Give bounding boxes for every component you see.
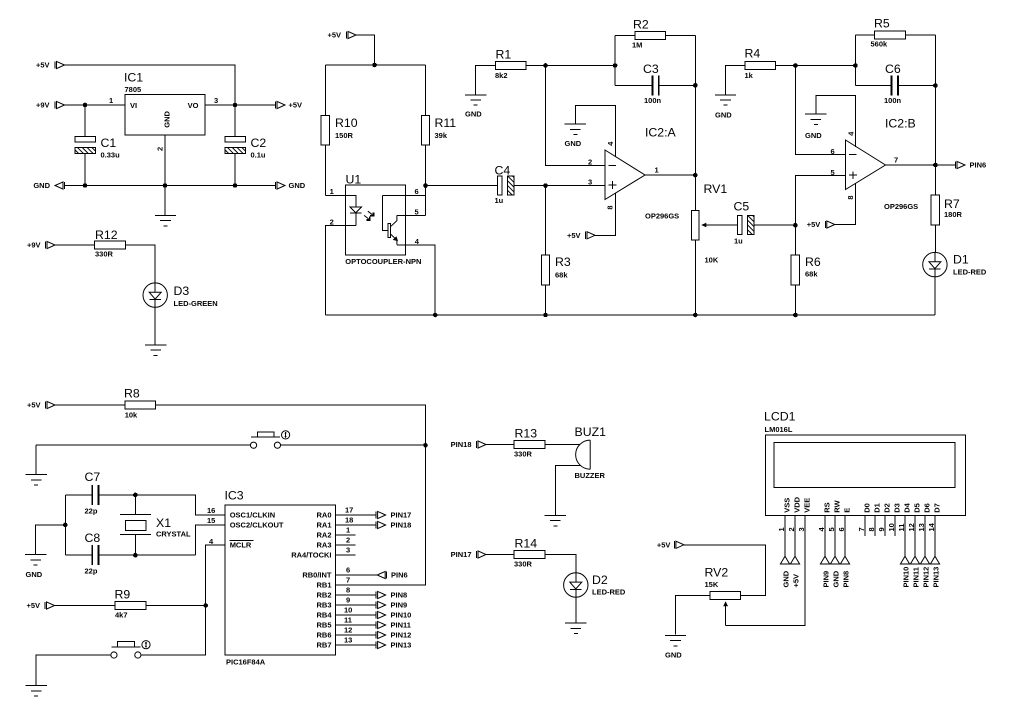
wire C4 node to pin3 [426, 185, 498, 187]
wire +5V to RV2 right [684, 545, 766, 596]
wire RB7 stub [336, 644, 376, 646]
svg-text:RB3: RB3 [316, 601, 331, 610]
capacitor C2 0.1u [225, 136, 267, 160]
svg-text:OP296GS: OP296GS [884, 202, 918, 211]
svg-text:E: E [843, 508, 852, 513]
wire U1 pin5 [397, 214, 426, 216]
wire crystal bus to ground [36, 525, 66, 555]
svg-text:LED-RED: LED-RED [592, 587, 626, 596]
wire R3 to bottom rail [545, 285, 547, 315]
svg-text:IC2:B: IC2:B [885, 117, 916, 131]
terminal PIN17 [376, 511, 411, 520]
svg-text:VI: VI [130, 101, 137, 110]
wire PIN17 to R14 [486, 554, 514, 556]
svg-text:OPTOCOUPLER-NPN: OPTOCOUPLER-NPN [345, 257, 421, 266]
svg-text:D5: D5 [913, 503, 922, 513]
svg-text:PIC16F84A: PIC16F84A [226, 657, 266, 666]
capacitor C4 1u [495, 164, 515, 206]
wire D3 to ground [154, 307, 156, 345]
svg-text:R7: R7 [944, 197, 960, 211]
wire node to feedback [546, 65, 616, 67]
resistor R12 330R [95, 228, 126, 259]
svg-text:GND: GND [33, 181, 50, 190]
svg-text:100n: 100n [884, 96, 902, 105]
svg-text:GND: GND [289, 181, 306, 190]
svg-text:10k: 10k [125, 411, 138, 420]
terminal PIN18 (buzzer) [451, 440, 486, 449]
ground (crystal) [25, 555, 46, 565]
svg-text:R4: R4 [745, 47, 761, 61]
capacitor C6 100n [855, 62, 935, 105]
svg-text:BUZZER: BUZZER [575, 471, 606, 480]
svg-text:D0: D0 [863, 503, 872, 513]
svg-text:+5V: +5V [567, 231, 581, 240]
svg-text:VO: VO [188, 101, 199, 110]
svg-text:PIN10: PIN10 [391, 611, 412, 620]
svg-text:8: 8 [846, 195, 855, 199]
wire +5V to R8 [55, 404, 125, 406]
wire LCD pin9 stub [884, 515, 886, 536]
terminal PIN13 (LCD D7) [930, 556, 940, 587]
wire +9V to R12 [55, 244, 94, 246]
wire non-inverting input net (IC2:B) [795, 175, 845, 255]
wire bottom rail [325, 314, 935, 316]
wire U1 pin6 [383, 194, 426, 196]
resistor R8 10k [124, 387, 156, 420]
resistor R5 560k [855, 17, 935, 49]
node feedback left dot [613, 63, 618, 68]
svg-text:PIN9: PIN9 [822, 571, 831, 588]
wire IC1 pin2 down [164, 135, 166, 216]
svg-text:GND: GND [26, 570, 43, 579]
wire LCD pin10 stub [894, 515, 896, 536]
LED D1 LED-RED [923, 252, 987, 276]
wire RA0 stub [336, 514, 376, 516]
wire RB5 stub [336, 624, 376, 626]
wire R12 to D3 [125, 245, 155, 283]
svg-text:+5V: +5V [26, 601, 40, 610]
svg-text:GND: GND [805, 131, 822, 140]
svg-text:VEE: VEE [803, 498, 812, 513]
svg-text:150R: 150R [335, 131, 354, 140]
ground (IC2:B) [805, 114, 826, 124]
svg-text:2: 2 [346, 536, 350, 545]
wire U1 pin2 to bottom rail [325, 226, 356, 316]
ground (D2) [565, 623, 586, 633]
wire node to R3 [545, 186, 547, 256]
wire D1 to bottom rail [934, 277, 936, 315]
svg-text:0.33u: 0.33u [101, 151, 121, 160]
wire RB6 stub [336, 634, 376, 636]
svg-text:560k: 560k [871, 40, 889, 49]
wire +5V down to top rail [356, 35, 375, 65]
terminal GND (left) [33, 181, 64, 190]
svg-text:LED-RED: LED-RED [953, 267, 987, 276]
wire LCD pin4 stub [824, 515, 826, 556]
svg-text:C4: C4 [495, 164, 511, 178]
svg-text:C2: C2 [251, 136, 267, 150]
svg-text:330R: 330R [95, 250, 114, 259]
wire +9V to IC1 VI [65, 104, 126, 106]
svg-text:LCD1: LCD1 [764, 410, 796, 424]
wire button1 left [36, 444, 253, 446]
svg-text:22p: 22p [85, 507, 98, 516]
node R6-rail dot [793, 313, 798, 318]
LCD1 LM016L display [764, 410, 966, 516]
svg-text:C7: C7 [85, 470, 101, 484]
svg-text:6: 6 [346, 566, 350, 575]
svg-text:C1: C1 [101, 136, 117, 150]
svg-text:LED-GREEN: LED-GREEN [174, 299, 218, 308]
svg-text:1: 1 [346, 526, 350, 535]
wire pins 5-6 vertical to node [425, 186, 427, 216]
svg-text:RB1: RB1 [316, 581, 331, 590]
wire C5 to pin5 riser [754, 224, 795, 226]
svg-text:R13: R13 [515, 427, 538, 441]
svg-text:OP296GS: OP296GS [645, 212, 679, 221]
svg-text:5: 5 [827, 527, 836, 531]
U1 internal LED [350, 207, 362, 226]
resistor R2 1M [615, 18, 695, 50]
ground (button1) [26, 475, 47, 485]
node MCLR dot [203, 603, 208, 608]
crystal X1 [120, 495, 191, 555]
svg-text:PIN9: PIN9 [391, 601, 408, 610]
svg-text:+9V: +9V [27, 241, 41, 250]
terminal GND (LCD RW) [830, 556, 840, 587]
svg-text:IC2:A: IC2:A [645, 126, 677, 140]
svg-text:GND: GND [465, 110, 482, 119]
svg-text:1: 1 [655, 166, 659, 175]
svg-text:RB7: RB7 [316, 641, 331, 650]
svg-text:+5V: +5V [289, 101, 303, 110]
svg-text:C6: C6 [885, 62, 901, 76]
svg-text:12: 12 [907, 523, 916, 531]
wire RV2 left to ground [675, 595, 710, 634]
wire R5 right riser to R7 [934, 35, 936, 195]
svg-text:7: 7 [894, 156, 898, 165]
svg-text:330R: 330R [514, 560, 533, 569]
svg-text:330R: 330R [514, 450, 533, 459]
svg-text:1M: 1M [632, 41, 642, 50]
svg-text:3: 3 [797, 527, 806, 531]
svg-text:PIN13: PIN13 [391, 641, 412, 650]
wire RA1 stub [336, 524, 376, 526]
svg-text:39k: 39k [435, 131, 448, 140]
wire R6 to bottom rail [794, 285, 796, 315]
wire RA3 stub [336, 544, 356, 546]
svg-text:+5V: +5V [792, 574, 801, 588]
wire LCD pin7 stub [864, 515, 866, 536]
svg-text:3: 3 [346, 546, 350, 555]
node R11/C4/pins junction dot [423, 183, 428, 188]
wire crystal left bus [64, 495, 66, 555]
svg-text:6: 6 [831, 147, 835, 156]
svg-text:68k: 68k [555, 271, 568, 280]
node pin4-rail dot [433, 313, 438, 318]
ground (RV2) [665, 636, 686, 646]
capacitor C7 22p [85, 470, 101, 516]
wire IC2:A output [645, 174, 695, 176]
terminal PIN13 [376, 641, 411, 650]
regulator IC1 7805 [124, 71, 205, 136]
resistor R10 150R [321, 115, 358, 145]
wire IC1 VO to +5V terminal [205, 104, 276, 106]
wire C2 bottom [234, 154, 236, 186]
svg-text:R3: R3 [555, 255, 571, 269]
wire ground rail IC1 [65, 185, 276, 187]
wire RB4 stub [336, 614, 376, 616]
wire RA4 stub [336, 554, 356, 556]
svg-text:IC1: IC1 [124, 71, 143, 85]
svg-text:PIN11: PIN11 [912, 567, 921, 587]
terminal PIN12 [376, 631, 411, 640]
svg-text:RA0: RA0 [316, 511, 331, 520]
svg-text:12: 12 [344, 626, 352, 635]
wire LCD pin5 stub [834, 515, 836, 556]
wire gnd to R1 [476, 66, 496, 95]
terminal +5V (R9) [26, 601, 54, 610]
svg-text:68k: 68k [805, 270, 818, 279]
resistor R1 8k2 [495, 48, 526, 81]
wire gnd to R4 [726, 66, 746, 95]
wire LCD pin2 stub [794, 515, 796, 556]
svg-text:0.1u: 0.1u [251, 151, 266, 160]
LED D2 LED-RED [564, 573, 626, 597]
svg-text:MCLR: MCLR [230, 541, 252, 550]
svg-text:R10: R10 [335, 116, 358, 130]
svg-text:14: 14 [927, 522, 936, 531]
buzzer BUZ1 [575, 425, 607, 480]
svg-text:PIN13: PIN13 [932, 567, 941, 588]
resistor R14 330R [514, 537, 545, 569]
svg-text:1: 1 [109, 96, 113, 105]
terminal +5V (R8) [27, 401, 55, 410]
terminal +5V (right of IC1) [276, 101, 303, 110]
svg-text:18: 18 [345, 516, 353, 525]
terminal PIN8 (LCD E) [840, 556, 850, 587]
op-amp IC2:B [846, 117, 919, 211]
wire rail to R10 [324, 65, 326, 115]
wire RB1 to button net [336, 445, 426, 585]
svg-text:PIN6: PIN6 [970, 161, 987, 170]
svg-text:2: 2 [588, 157, 592, 166]
svg-text:RV2: RV2 [705, 566, 729, 580]
svg-text:PIN12: PIN12 [391, 631, 412, 640]
terminal +5V (RV2) [657, 541, 684, 550]
node C2-gnd dot [233, 183, 238, 188]
svg-text:10K: 10K [705, 256, 719, 265]
wire +5V to R9 [55, 605, 116, 607]
node C1-gnd dot [83, 183, 88, 188]
svg-text:GND: GND [565, 139, 582, 148]
resistor R4 1k [745, 47, 776, 81]
wire +5V top rail to VO node [65, 65, 236, 105]
svg-text:2: 2 [156, 147, 165, 151]
LED D3 LED-GREEN [143, 283, 218, 308]
svg-text:7: 7 [857, 527, 866, 531]
wire C1 bottom [84, 154, 86, 186]
svg-text:+9V: +9V [36, 101, 50, 110]
terminal PIN9 (LCD RS) [820, 556, 830, 587]
terminal PIN18 (RA1) [376, 521, 411, 530]
resistor R7 180R [931, 195, 962, 225]
wire R13 to buzzer [545, 444, 580, 446]
wire R9 to MCLR node [146, 605, 206, 607]
svg-text:R8: R8 [124, 387, 140, 401]
U1 internal phototransistor [383, 195, 398, 245]
svg-text:10: 10 [887, 523, 896, 531]
svg-text:6: 6 [415, 187, 419, 196]
svg-text:15K: 15K [705, 580, 719, 589]
wire RA2 stub [336, 534, 356, 536]
svg-text:2: 2 [787, 527, 796, 531]
svg-text:11: 11 [897, 524, 906, 532]
wire R8 to RB1 riser [156, 405, 426, 445]
node +5V rail dot [372, 63, 377, 68]
resistor R3 68k [541, 255, 571, 285]
svg-text:RA3: RA3 [316, 541, 331, 550]
wire LCD pin6 stub [844, 515, 846, 556]
svg-text:VSS: VSS [783, 498, 792, 513]
terminal +9V [36, 101, 65, 110]
wire LCD pin13 stub [924, 515, 926, 556]
terminal +9V (R12) [27, 241, 55, 250]
resistor R9 4k7 [115, 588, 146, 620]
wire R1 to node [526, 65, 546, 67]
svg-text:PIN18: PIN18 [391, 521, 412, 530]
svg-text:1k: 1k [745, 71, 754, 80]
svg-text:GND: GND [715, 111, 732, 120]
terminal PIN6 (output) [956, 161, 987, 170]
capacitor C8 22p [85, 531, 101, 575]
svg-text:PIN6: PIN6 [391, 571, 408, 580]
wire inverting input net (IC2:B) [795, 66, 845, 155]
svg-text:RB6: RB6 [316, 631, 331, 640]
wire node to button2 [141, 606, 206, 656]
wire buzzer to ground [555, 466, 580, 516]
svg-text:GND: GND [163, 110, 172, 127]
wire crystal bottom net (OSC2) [65, 525, 225, 555]
wire LCD pin12 stub [914, 515, 916, 556]
terminal +5V (LCD pin2) [790, 556, 800, 587]
terminal +5V (IC2:A) [567, 231, 595, 240]
svg-text:7: 7 [346, 576, 350, 585]
terminal PIN11 [376, 621, 411, 630]
wire output riser (R2/C3 right to RV1) [694, 35, 696, 210]
svg-text:100n: 100n [644, 96, 662, 105]
svg-text:OSC2/CLKOUT: OSC2/CLKOUT [230, 521, 284, 530]
terminal GND (LCD pin1) [780, 556, 790, 587]
wire LCD pin14 stub [934, 515, 936, 556]
svg-text:D1: D1 [873, 503, 882, 513]
svg-text:U1: U1 [346, 173, 362, 187]
terminal +5V (IC2:B) [807, 220, 835, 229]
svg-text:6: 6 [837, 527, 846, 531]
node X1 bottom dot [133, 553, 138, 558]
svg-text:R6: R6 [805, 255, 821, 269]
wire C1 top [84, 105, 86, 137]
ground (IC2:A) [565, 124, 586, 134]
svg-text:PIN17: PIN17 [451, 550, 472, 559]
svg-text:C8: C8 [85, 531, 101, 545]
svg-text:D2: D2 [883, 503, 892, 513]
svg-text:17: 17 [345, 506, 353, 515]
wire IC2:B V- to GND [816, 95, 856, 147]
node R4/pin6 dot [793, 63, 798, 68]
push button (reset bottom) [111, 641, 150, 659]
wire IC2:B output [886, 164, 956, 166]
terminal PIN17 (D2) [451, 550, 486, 559]
ground (D3) [145, 345, 166, 355]
terminal PIN12 (LCD D6) [920, 556, 930, 587]
node VI junction dot [83, 103, 88, 108]
ground (button2) [26, 686, 47, 696]
svg-text:D4: D4 [903, 502, 912, 512]
svg-text:8: 8 [606, 205, 615, 209]
svg-text:PIN12: PIN12 [922, 567, 931, 588]
ground (below IC1) [155, 216, 176, 226]
wire RB2 stub [336, 594, 376, 596]
svg-text:11: 11 [344, 616, 352, 625]
resistor R13 330R [514, 427, 545, 459]
resistor R6 68k [791, 255, 821, 285]
svg-text:7805: 7805 [125, 85, 142, 94]
node VO junction dot [233, 103, 238, 108]
wire RB3 stub [336, 604, 376, 606]
svg-text:2: 2 [330, 217, 334, 226]
wire LCD pin11 stub [904, 515, 906, 556]
svg-text:PIN8: PIN8 [391, 591, 408, 600]
svg-text:1u: 1u [495, 196, 504, 205]
terminal PIN11 (LCD D5) [910, 556, 920, 587]
terminal GND (right) [276, 181, 306, 190]
svg-text:GND: GND [832, 570, 841, 587]
svg-text:D3: D3 [893, 503, 902, 513]
svg-text:10: 10 [344, 606, 352, 615]
node output dot [693, 173, 698, 178]
svg-text:1: 1 [777, 527, 786, 531]
wire button1 right [281, 444, 426, 446]
wire U1 pin1 [325, 195, 356, 207]
terminal +5V (sensor) [327, 31, 356, 40]
svg-text:+5V: +5V [27, 401, 41, 410]
potentiometer RV2 15K [705, 566, 741, 626]
wire RV1 bottom to rail [694, 240, 696, 315]
svg-text:C3: C3 [643, 62, 659, 76]
wire sensor top rail [325, 64, 425, 66]
svg-text:GND: GND [782, 570, 791, 587]
capacitor C5 1u [734, 200, 755, 246]
svg-text:PIN11: PIN11 [391, 621, 411, 630]
wire feedback left riser [614, 35, 616, 85]
svg-text:GND: GND [665, 651, 682, 660]
wire C2 top [234, 105, 236, 137]
svg-text:RB4: RB4 [316, 611, 332, 620]
svg-text:PIN10: PIN10 [902, 567, 911, 588]
svg-text:R9: R9 [115, 588, 131, 602]
node output/R7 dot [933, 163, 938, 168]
svg-text:16: 16 [207, 506, 215, 515]
svg-text:13: 13 [917, 523, 926, 531]
svg-text:R2: R2 [633, 18, 649, 32]
svg-text:1: 1 [330, 187, 334, 196]
node button1/RB1 dot [423, 443, 428, 448]
svg-text:C5: C5 [734, 200, 750, 214]
svg-text:PIN18: PIN18 [451, 440, 472, 449]
wire R7 to D1 [934, 225, 936, 253]
resistor R11 39k [421, 115, 456, 145]
